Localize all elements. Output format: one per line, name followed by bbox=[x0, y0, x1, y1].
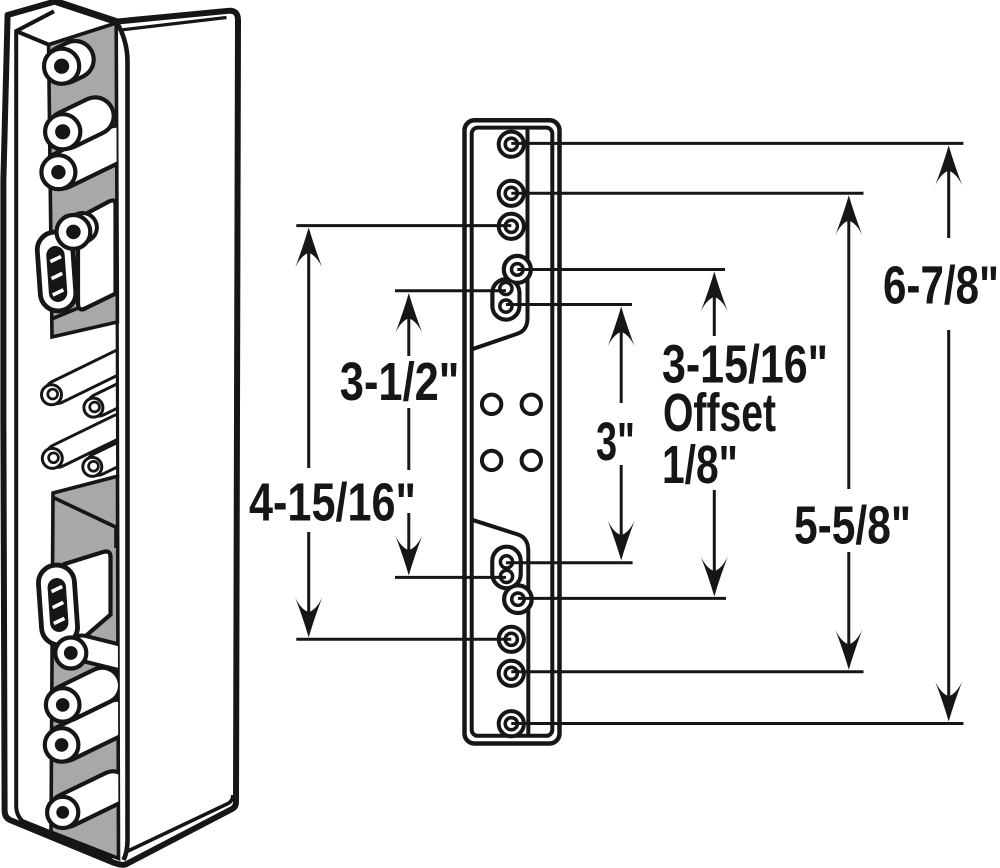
roller pin 6 bbox=[66, 686, 102, 704]
latch pin cap upper bbox=[57, 215, 91, 249]
dimension line 3-1/2 bbox=[395, 293, 422, 333]
leader keyhole circle lower bbox=[518, 597, 726, 600]
leader hole b3 bbox=[511, 722, 963, 725]
leader keyhole circle upper bbox=[517, 268, 725, 271]
leader slot lower bottom bbox=[395, 576, 506, 579]
latch pin neck upper bbox=[73, 228, 82, 232]
leader hole t2 bbox=[511, 192, 863, 195]
leader hole b1 bbox=[296, 638, 511, 641]
latch band lower bbox=[82, 648, 119, 657]
svg-text:6-7/8": 6-7/8" bbox=[883, 256, 999, 316]
top rim right wall bbox=[121, 18, 227, 31]
svg-text:4-15/16": 4-15/16" bbox=[249, 473, 416, 533]
bracket outline bbox=[3, 1, 238, 864]
guide tube 3 bbox=[58, 426, 119, 456]
dimension line offset bbox=[701, 272, 728, 312]
leader slot lower top bbox=[506, 561, 633, 564]
recess inner fold lower bbox=[53, 497, 116, 548]
roller pin 2 bbox=[66, 116, 95, 130]
screw hole bottom 3 bbox=[499, 711, 524, 736]
svg-text:3": 3" bbox=[596, 412, 635, 472]
screw hole top 1 bbox=[499, 132, 524, 157]
corner fold line bbox=[116, 22, 127, 860]
svg-text:Offset: Offset bbox=[663, 383, 776, 443]
dimension line 5-5/8 bbox=[835, 195, 862, 235]
recess cavity lower (gray) bbox=[51, 476, 119, 858]
mount hole b bbox=[522, 395, 541, 414]
screw hole bottom 1 bbox=[499, 627, 524, 652]
leader hole t3 bbox=[296, 224, 511, 227]
roller pin 1 bbox=[65, 60, 75, 65]
mount hole a bbox=[482, 395, 501, 414]
jamb bracket body (white base) bbox=[3, 1, 238, 864]
latch bolt slab lower bbox=[65, 551, 111, 640]
recess cavity upper (gray) bbox=[49, 23, 118, 337]
latch bolt slab upper bbox=[78, 200, 116, 309]
dimension line 3 bbox=[608, 307, 635, 347]
faceplate rib upper bbox=[472, 128, 528, 350]
latch pin cap lower bbox=[55, 638, 86, 669]
leader hole t1 bbox=[511, 142, 963, 145]
guide tube 2 bbox=[99, 394, 122, 405]
leader slot upper top bbox=[395, 289, 506, 292]
top bevel edge bbox=[16, 31, 48, 44]
faceplate inner bbox=[472, 128, 553, 736]
svg-text:3-1/2": 3-1/2" bbox=[340, 352, 460, 412]
roller pin 3 bbox=[62, 144, 117, 171]
screw hole top 3 bbox=[499, 214, 524, 239]
keeper ring upper bbox=[36, 231, 77, 312]
roller pin 8 bbox=[66, 788, 113, 811]
front wall inner rim bbox=[16, 11, 113, 857]
top fold edge bbox=[55, 1, 116, 21]
mount hole c bbox=[482, 451, 501, 470]
faceplate outer bbox=[465, 120, 560, 743]
recess right edge middle bbox=[116, 320, 120, 478]
keyhole slot lower bbox=[492, 547, 520, 589]
screw hole top 2 bbox=[499, 181, 524, 206]
roller pin 7 bbox=[65, 718, 117, 743]
keyhole slot upper bbox=[492, 279, 519, 319]
right wall inner bottom rim bbox=[128, 795, 233, 851]
leader hole b2 bbox=[511, 670, 863, 673]
dimension line 4-15/16 bbox=[295, 228, 322, 268]
svg-text:5-5/8": 5-5/8" bbox=[794, 496, 911, 556]
leader slot upper bottom bbox=[506, 303, 632, 306]
screw hole bottom 2 bbox=[499, 661, 524, 686]
faceplate rib lower bbox=[472, 520, 529, 736]
guide tube 1 bbox=[57, 361, 120, 392]
guide tube 4 bbox=[98, 453, 121, 464]
svg-text:1/8": 1/8" bbox=[662, 435, 738, 495]
mount hole d bbox=[522, 451, 541, 470]
recess inner fold upper bbox=[52, 292, 117, 319]
dimension line 6-7/8 bbox=[935, 145, 962, 185]
keeper ring lower bbox=[37, 564, 78, 646]
